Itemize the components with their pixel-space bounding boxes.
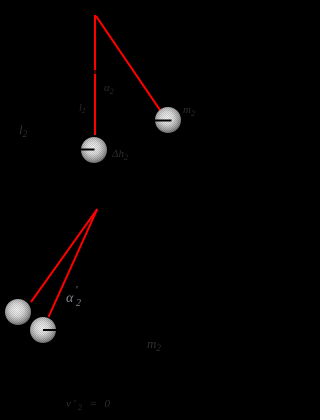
ball: far displaced ball, lower figure: [5, 299, 31, 325]
wire: dark radius line inside near ball: [43, 329, 56, 331]
wire: string to near ball, lower pendulum: [49, 209, 98, 317]
wire: inclined string of upper pendulum to ball m2: [96, 16, 160, 110]
ball: displaced ball m2, upper figure: [155, 107, 181, 133]
wire: dark line inside displaced ball: [155, 120, 172, 122]
wire: string to far ball, lower pendulum: [31, 209, 97, 302]
ball: hanging ball (equilibrium position), upper figure: [81, 137, 107, 163]
wire: dark radius line inside hanging ball: [81, 149, 95, 151]
ball: near displaced ball, lower figure: [30, 317, 56, 343]
node: dark tick on vertical string (angle arc crossing): [94, 70, 96, 74]
wire: vertical string of upper pendulum: [94, 15, 96, 135]
